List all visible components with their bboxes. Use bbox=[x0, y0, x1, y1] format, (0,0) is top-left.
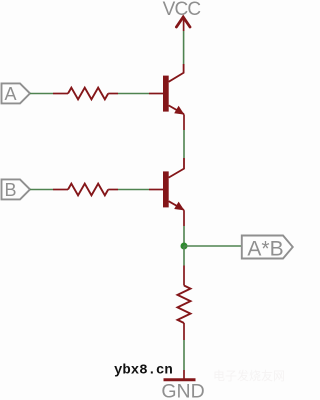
wire: net A (green) from label to R1 bbox=[30, 93, 53, 95]
wire: Q2 emitter pin (dark red) bbox=[183, 210, 185, 226]
wire: Q1 collector pin lead bbox=[169, 64, 184, 82]
transistor Q1 emitter arrow bbox=[174, 106, 184, 115]
VCC supply arrow symbol bbox=[176, 17, 190, 27]
svg-text:A: A bbox=[4, 84, 16, 104]
input label A (pentagon flag) bbox=[2, 83, 31, 103]
transistor Q2 emitter arrow bbox=[174, 202, 184, 211]
wire: VCC net (green segment) bbox=[183, 31, 185, 64]
input label B (pentagon flag) bbox=[2, 179, 31, 199]
transistor Q2 (NPN) base bar bbox=[163, 171, 169, 207]
wire: Q1 emitter pin (dark red) bbox=[183, 114, 185, 130]
resistor R1 (input A) bbox=[68, 88, 108, 100]
ground symbol bar bbox=[164, 378, 196, 381]
resistor R3 (pull-down) bbox=[178, 286, 191, 324]
svg-text:电子发烧友网: 电子发烧友网 bbox=[213, 368, 285, 383]
wire: output net to label (green) bbox=[184, 245, 241, 247]
wire: GND pin bbox=[183, 370, 185, 379]
wire: R2 right pin bbox=[108, 189, 118, 191]
transistor Q1 emitter lead bbox=[169, 105, 184, 114]
wire: net Q2.E to output node (green) bbox=[183, 226, 185, 246]
wire: R1 left pin bbox=[53, 93, 68, 95]
svg-text:ybx8.cn: ybx8.cn bbox=[114, 363, 173, 379]
wire: net R1 to Q1 base (green) bbox=[118, 93, 149, 95]
wire: Q2 base pin bbox=[149, 189, 163, 191]
svg-text:A*B: A*B bbox=[247, 238, 283, 261]
wire: node to R3 (green) bbox=[183, 246, 185, 266]
wire: net R2 to Q2 base (green) bbox=[118, 189, 149, 191]
resistor R2 (input B) bbox=[68, 184, 108, 196]
wire: net B (green) from label to R2 bbox=[30, 189, 53, 191]
output label A*B (pentagon flag) bbox=[242, 236, 293, 259]
wire: Q2 collector pin lead bbox=[169, 158, 184, 178]
wire: VCC pin (dark red segment) bbox=[183, 19, 185, 31]
wire: net R3 to GND (green) bbox=[183, 340, 185, 370]
wire: R3 bottom pin bbox=[183, 323, 185, 340]
wire: R2 left pin bbox=[53, 189, 68, 191]
wire: R1 right pin bbox=[108, 93, 118, 95]
transistor Q1 (NPN) base bar bbox=[163, 76, 169, 112]
transistor Q2 emitter lead bbox=[169, 201, 184, 210]
svg-text:B: B bbox=[4, 180, 16, 200]
svg-text:GND: GND bbox=[161, 381, 204, 400]
wire: Q1 base pin bbox=[149, 93, 163, 95]
wire: net Q1.E to Q2.C (green) bbox=[183, 130, 185, 158]
junction node (green dot) bbox=[181, 243, 188, 250]
wire: R3 top pin bbox=[183, 266, 185, 286]
